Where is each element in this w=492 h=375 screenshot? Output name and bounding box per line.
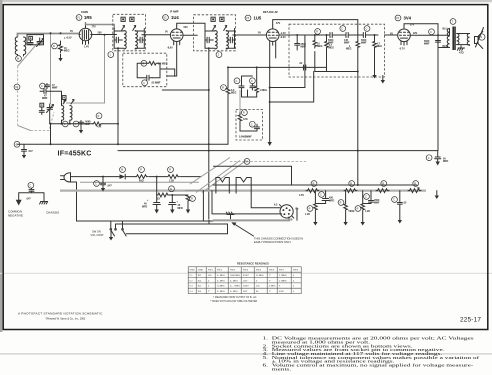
svg-text:0: 0 [293, 280, 295, 282]
svg-text:PIN 3: PIN 3 [230, 270, 236, 272]
svg-text:1.: 1. [263, 337, 269, 341]
T1 wires [114, 31, 145, 48]
capacitor C18 plate [429, 29, 435, 35]
svg-text:C: C [366, 28, 368, 31]
svg-text:C: C [428, 157, 430, 160]
svg-text:R: R [53, 45, 55, 48]
bus AVC lower [118, 150, 438, 152]
filament resistor FR2 [349, 181, 355, 187]
IF transformer T1 can (dashed) [113, 14, 146, 51]
svg-text:MMF: MMF [374, 202, 380, 205]
capacitor C3 AGC [147, 75, 153, 80]
svg-text:V1: V1 [77, 17, 81, 20]
svg-text:2.7MEG: 2.7MEG [279, 275, 287, 277]
resistor R11 surge [139, 167, 145, 173]
V3 plate resistor network mid [221, 85, 227, 91]
svg-text:.05 MMF: .05 MMF [151, 82, 161, 85]
cable bundle diagonals [185, 158, 246, 193]
T1 primary cap [114, 29, 122, 49]
svg-text:0: 0 [256, 280, 258, 282]
svg-text:22 MEG: 22 MEG [256, 275, 264, 277]
ground arrow C16 [22, 155, 26, 159]
svg-text:0V: 0V [165, 31, 168, 34]
shunt resistor SR3 [355, 206, 361, 212]
svg-text:0.0068MMF: 0.0068MMF [239, 136, 252, 139]
T1 slug arrows [122, 26, 125, 31]
svg-text:225-17: 225-17 [460, 316, 481, 323]
trimmer T2 secondary [220, 17, 224, 21]
resistor R13 bleeder [190, 196, 196, 202]
wire grid bus top-left [18, 34, 80, 37]
osc tuning cap C1B [47, 104, 53, 124]
svg-text:100: 100 [208, 275, 212, 277]
ground arrow R1 [60, 54, 62, 58]
resistance readings table [188, 262, 301, 303]
filament wire upper [213, 166, 291, 185]
svg-text:B-: B- [291, 219, 294, 222]
wire V4 plate [410, 34, 449, 36]
capacitor C8 series [304, 65, 309, 70]
svg-text:MMF: MMF [42, 97, 48, 100]
shunt resistor SR1 [307, 206, 313, 212]
resistor R4 4.7meg [325, 35, 329, 67]
svg-text:67V: 67V [276, 22, 281, 25]
svg-text:M: M [121, 169, 123, 172]
svg-text:©Howard W. Sams & Co., Inc. 19: ©Howard W. Sams & Co., Inc. 1953 [46, 317, 86, 320]
junction grid wire [60, 32, 62, 34]
resistor R8 [255, 67, 259, 97]
svg-text:NEGATIVE: NEGATIVE [8, 214, 23, 218]
svg-text:.047: .047 [26, 198, 31, 201]
svg-text:5.: 5. [263, 356, 269, 360]
filament choke dashed box [236, 110, 263, 141]
circled ref C5 [340, 26, 346, 32]
wire V2 out to IF2 [183, 34, 197, 36]
svg-text:C: C [251, 123, 253, 126]
wire V1 plate to IF1 [92, 34, 117, 36]
svg-text:† MEASURED FROM OUTPUT OF B− A: † MEASURED FROM OUTPUT OF B− AC [213, 296, 257, 299]
svg-text:M: M [246, 161, 248, 164]
legend wires [19, 193, 44, 202]
svg-text:1U5: 1U5 [198, 286, 203, 288]
terminal M1 [16, 56, 22, 62]
svg-text:R: R [243, 112, 245, 115]
terminal M2 [14, 84, 20, 90]
svg-text:1.2K: 1.2K [169, 180, 174, 183]
speaker voice coil [467, 34, 469, 46]
filament cap FC3 [392, 197, 398, 203]
svg-text:0: 0 [208, 280, 210, 282]
svg-text:1.2K: 1.2K [305, 213, 310, 216]
T2 slug arrows [213, 26, 216, 31]
svg-text:CONV: CONV [81, 11, 89, 14]
scan edge top strip [0, 0, 492, 2]
svg-text:PIN 6: PIN 6 [269, 270, 275, 272]
svg-text:.047: .047 [107, 184, 112, 187]
svg-text:7V: 7V [417, 187, 420, 190]
svg-text:RED: RED [443, 45, 448, 48]
svg-text:R: R [414, 183, 416, 186]
svg-text:CHASSIS: CHASSIS [46, 211, 59, 215]
svg-text:.047: .047 [28, 150, 33, 153]
annotation arrow early production [234, 224, 254, 237]
svg-text:R: R [169, 169, 171, 172]
svg-text:R: R [382, 183, 384, 186]
wire AGC loop [137, 63, 175, 77]
svg-text:3+ MEG: 3+ MEG [230, 280, 238, 282]
ground arrow dashed box right [382, 76, 384, 81]
filament cap FC2 [364, 194, 370, 200]
svg-text:R: R [140, 169, 142, 172]
V2 plate top wire [177, 23, 205, 28]
svg-text:V 2: V 2 [190, 280, 194, 282]
svg-text:R: R [357, 208, 359, 211]
filament resistor FR3 [381, 181, 387, 187]
wire vol wiper drop [270, 72, 314, 103]
svg-text:IF=455KC: IF=455KC [58, 150, 92, 157]
svg-text:.02: .02 [299, 62, 303, 65]
resistor R12 filter [168, 167, 174, 173]
svg-text:MFD: MFD [329, 200, 334, 203]
wire IF1 sec to AVC [64, 35, 104, 103]
filament resistor FR1 [311, 181, 317, 187]
osc cap C15 [73, 121, 79, 127]
svg-text:6.3: 6.3 [274, 204, 278, 207]
capacitor C9 det filter [234, 78, 240, 84]
resistor R6 [373, 35, 377, 75]
AGC dashed box [123, 53, 167, 86]
svg-text:1 MEG: 1 MEG [260, 89, 268, 92]
svg-text:3+ MEG: 3+ MEG [230, 291, 238, 293]
svg-text:3+ MEG: 3+ MEG [217, 291, 225, 293]
wire IF1 B+ drop [117, 48, 119, 144]
trimmer T2 primary [211, 17, 215, 21]
svg-text:1.2K: 1.2K [365, 210, 370, 213]
B minus end arrow [436, 191, 438, 196]
T2 secondary cap [227, 29, 234, 49]
svg-text:62V: 62V [184, 26, 189, 29]
svg-text:1R5: 1R5 [84, 15, 92, 20]
svg-text:THIS CHASSIS CONNECTION USED I: THIS CHASSIS CONNECTION USED IN [254, 236, 303, 240]
bus B minus upper [17, 143, 228, 145]
svg-text:T: T [452, 21, 454, 24]
svg-text:C: C [251, 80, 253, 83]
capacitor C11 choke [249, 121, 255, 127]
V3 plate wire top [273, 20, 358, 42]
filter cap C21 [153, 195, 160, 210]
wire AVC feed left [270, 35, 305, 88]
svg-text:-8.9V: -8.9V [167, 47, 173, 50]
filament meander 1 [216, 178, 229, 194]
speaker cone [475, 28, 484, 49]
ground arrow C20 [101, 188, 105, 192]
svg-text:S: S [480, 36, 482, 39]
svg-text:C: C [143, 82, 145, 85]
filament resistor FR4 [413, 181, 419, 187]
svg-text:92V: 92V [413, 32, 418, 35]
svg-text:1U5: 1U5 [254, 16, 262, 21]
svg-text:47K: 47K [97, 126, 102, 129]
osc grid cap C12 [40, 89, 51, 94]
svg-text:V3: V3 [246, 17, 250, 20]
svg-text:MFD: MFD [443, 160, 448, 163]
tube V4 output [395, 15, 401, 21]
wire V2 cathode drop [167, 45, 177, 76]
svg-text:PIN 1: PIN 1 [208, 270, 214, 272]
svg-text:MMF: MMF [361, 42, 367, 45]
circled ref T1 [108, 52, 114, 58]
svg-text:3V4: 3V4 [404, 16, 412, 21]
main AF wire [279, 34, 378, 36]
svg-text:MMF: MMF [424, 43, 430, 46]
wire B+ vertical [437, 24, 439, 151]
T2 primary coil [215, 31, 217, 50]
chassis ground early prod [226, 212, 234, 219]
svg-text:V 3: V 3 [190, 286, 194, 288]
osc coil wires [51, 91, 70, 124]
svg-text:MEG: MEG [231, 92, 237, 95]
resistor R1 grid [52, 43, 58, 49]
T2 secondary coil [226, 31, 228, 50]
svg-text:0 MEG: 0 MEG [269, 286, 276, 288]
trimmer T1 secondary [130, 17, 134, 21]
svg-text:7*: 7* [269, 280, 271, 282]
osc coil L2 [62, 106, 64, 121]
svg-text:0: 0 [293, 291, 295, 293]
capacitor C4 det [295, 35, 300, 50]
wire into choke box [239, 90, 241, 113]
scan fold line lower [0, 353, 492, 354]
svg-text:0: 0 [208, 286, 210, 288]
capacitor C5 coupling [330, 33, 337, 38]
svg-text:V 1: V 1 [190, 275, 194, 277]
wire V2 grid return [174, 69, 176, 76]
svg-text:1U4: 1U4 [198, 280, 203, 282]
svg-text:VOL CONT: VOL CONT [91, 233, 105, 237]
wire cathode h [162, 90, 256, 97]
svg-text:MEG: MEG [346, 48, 352, 51]
switch rails [77, 208, 298, 224]
svg-text:▲-6.5V: ▲-6.5V [64, 37, 72, 40]
svg-text:C: C [16, 143, 18, 146]
svg-text:1: 1 [110, 54, 112, 57]
svg-text:MMF: MMF [301, 46, 307, 49]
svg-text:MMF: MMF [52, 87, 58, 90]
svg-text:.05: .05 [403, 202, 407, 205]
svg-text:RESISTANCE READINGS: RESISTANCE READINGS [237, 262, 269, 265]
capacitor C1A plates [28, 40, 33, 45]
resistor R9 choke [242, 110, 248, 116]
tube socket bottom view [280, 205, 293, 218]
svg-text:47Ω: 47Ω [243, 118, 248, 121]
capacitor C10 [250, 78, 256, 84]
svg-text:V4: V4 [396, 17, 400, 20]
svg-text:R: R [170, 188, 172, 191]
svg-text:MEG: MEG [64, 50, 70, 53]
svg-text:M: M [17, 58, 19, 61]
V3 pin wires [270, 45, 276, 142]
svg-text:1.4V: 1.4V [84, 46, 89, 49]
svg-text:560Ω: 560Ω [349, 210, 355, 213]
svg-text:M: M [16, 86, 18, 89]
svg-text:4.5V: 4.5V [299, 194, 304, 197]
IF transformer T2 can (dashed) [194, 15, 236, 51]
dash-dot gang line [230, 160, 306, 162]
svg-text:TUBE: TUBE [198, 270, 204, 272]
svg-text:PIN 4: PIN 4 [243, 270, 249, 272]
svg-text:MEG: MEG [329, 47, 335, 50]
svg-text:C: C [430, 31, 432, 34]
svg-text:3: 3 [279, 286, 281, 288]
svg-text:500†: 500† [243, 291, 248, 293]
T2 wires [205, 31, 236, 49]
svg-text:3+ MEG: 3+ MEG [217, 280, 225, 282]
shunt resistor SR2 [338, 200, 344, 206]
svg-text:7*: 7* [269, 275, 271, 277]
svg-text:R: R [309, 208, 311, 211]
wire IF2 B+ drop [208, 49, 210, 219]
svg-text:3V4: 3V4 [198, 291, 203, 293]
svg-text:PIN 8: PIN 8 [293, 270, 299, 272]
svg-text:0: 0 [293, 286, 295, 288]
resistor R3 10meg [315, 29, 321, 35]
svg-text:R: R [191, 198, 193, 201]
svg-text:0V: 0V [258, 32, 261, 35]
svg-text:60Ω: 60Ω [139, 180, 144, 183]
B minus line [213, 184, 417, 186]
wire V4 screen top [404, 24, 438, 26]
svg-text:R: R [350, 183, 352, 186]
svg-text:MEG: MEG [377, 45, 383, 48]
resistor R2 AGC [141, 60, 147, 66]
T1 secondary coil [135, 31, 137, 50]
T1 secondary cap [137, 29, 144, 49]
svg-text:80: 80 [256, 291, 259, 293]
svg-text:-8.9V: -8.9V [280, 36, 286, 39]
svg-text:PIN 2: PIN 2 [217, 270, 223, 272]
variable capacitor C1 tuning [37, 38, 43, 45]
resistor R7 3.3meg [226, 67, 230, 144]
svg-text:EARLY PRODUCTIONS ONLY: EARLY PRODUCTIONS ONLY [254, 240, 291, 244]
circled ref T2 [216, 52, 222, 58]
T1 primary coil [124, 31, 126, 50]
svg-text:6.: 6. [263, 364, 269, 368]
svg-text:+: + [147, 199, 149, 202]
circled ref speaker [479, 34, 485, 40]
notes list bottom right [263, 337, 481, 372]
svg-text:100†: 100† [243, 280, 248, 282]
svg-text:R: R [340, 202, 342, 205]
scan fold line mid [0, 273, 492, 274]
svg-text:ments.: ments. [272, 368, 292, 372]
svg-text:C: C [236, 80, 238, 83]
svg-text:ITEM: ITEM [190, 270, 195, 272]
electrolytic FC1 [319, 192, 325, 198]
svg-text:* TAKEN WITH VACUUM TUBE VOLTM: * TAKEN WITH VACUUM TUBE VOLTMETER [210, 300, 257, 303]
svg-text:C: C [393, 199, 395, 202]
svg-text:4+. 7 MEG: 4+. 7 MEG [230, 286, 240, 288]
svg-text:C: C [320, 194, 322, 197]
svg-text:33: 33 [157, 198, 160, 201]
volume pot R5 [356, 42, 360, 72]
svg-text:10 MEG: 10 MEG [217, 286, 225, 288]
svg-text:100K MEG: 100K MEG [230, 275, 240, 277]
svg-text:77V: 77V [92, 26, 97, 29]
T2 primary cap [205, 29, 213, 49]
legend chassis symbol [40, 202, 48, 205]
resistor R10 osc [96, 113, 102, 119]
wire pot bottom to B minus [357, 72, 359, 186]
svg-text:MFD: MFD [178, 207, 183, 210]
svg-text:MFD: MFD [142, 206, 147, 209]
svg-text:C: C [41, 85, 43, 88]
scan edge left strip [0, 0, 2, 332]
osc feedback cap C2 [40, 83, 46, 89]
loop antenna coil L1 [15, 37, 17, 55]
wire plate-transformer lower [438, 47, 450, 49]
filter cap C22 [169, 195, 176, 210]
ground arrow C15 [80, 126, 82, 130]
svg-text:500K†: 500K† [243, 286, 249, 288]
ground arrow R6 [372, 75, 376, 79]
svg-text:C: C [95, 183, 97, 186]
svg-text:470K†: 470K† [243, 275, 249, 277]
legend cap C17 [28, 182, 34, 188]
AC line plug [61, 173, 71, 182]
wire V4 grid [385, 34, 398, 36]
svg-text:3+ MEG: 3+ MEG [217, 275, 225, 277]
tuning section box [27, 35, 44, 45]
svg-text:0V: 0V [70, 30, 73, 33]
svg-text:100: 100 [256, 286, 260, 288]
svg-text:C: C [341, 28, 343, 31]
svg-text:47Ω: 47Ω [459, 52, 464, 55]
trimmer C1A [29, 36, 33, 40]
capacitor C6 [346, 33, 353, 38]
trimmer T1 primary [121, 17, 125, 21]
osc trimmer C14 [62, 96, 66, 100]
wire AF return bus [228, 66, 270, 68]
svg-text:B+: B+ [296, 208, 300, 211]
svg-text:MEG: MEG [317, 45, 323, 48]
svg-text:2: 2 [218, 54, 220, 57]
bus left end cap C16 [14, 141, 20, 147]
svg-text:C: C [30, 184, 32, 187]
wire AVC grey vertical [50, 33, 52, 104]
svg-text:R: R [316, 31, 318, 34]
svg-text:-0.7V: -0.7V [399, 48, 405, 51]
volume control dashed box [289, 24, 385, 77]
svg-text:A PHOTOFACT STANDARD NOTATION: A PHOTOFACT STANDARD NOTATION SCHEMATIC [18, 311, 103, 315]
svg-text:PIN 7: PIN 7 [279, 270, 285, 272]
svg-text:7*: 7* [269, 291, 271, 293]
output transformer T3 [450, 19, 456, 25]
capacitor C7 [363, 33, 370, 38]
legend common negative arrow [16, 200, 22, 206]
svg-text:7*: 7* [208, 291, 210, 293]
osc bottom wire [50, 123, 118, 125]
B+ cap C19 [426, 155, 432, 161]
circled ref C7 [364, 26, 370, 32]
svg-text:0: 0 [293, 275, 295, 277]
svg-text:Volume control at maximum, no: Volume control at maximum, no signal app… [272, 363, 474, 368]
svg-text:R: R [313, 183, 315, 186]
speaker wires [457, 34, 470, 46]
circled ref L2 [62, 121, 68, 127]
svg-text:1U4: 1U4 [171, 15, 179, 20]
tube V1 top plate wire [86, 23, 115, 30]
svg-text:V 4: V 4 [190, 291, 194, 293]
